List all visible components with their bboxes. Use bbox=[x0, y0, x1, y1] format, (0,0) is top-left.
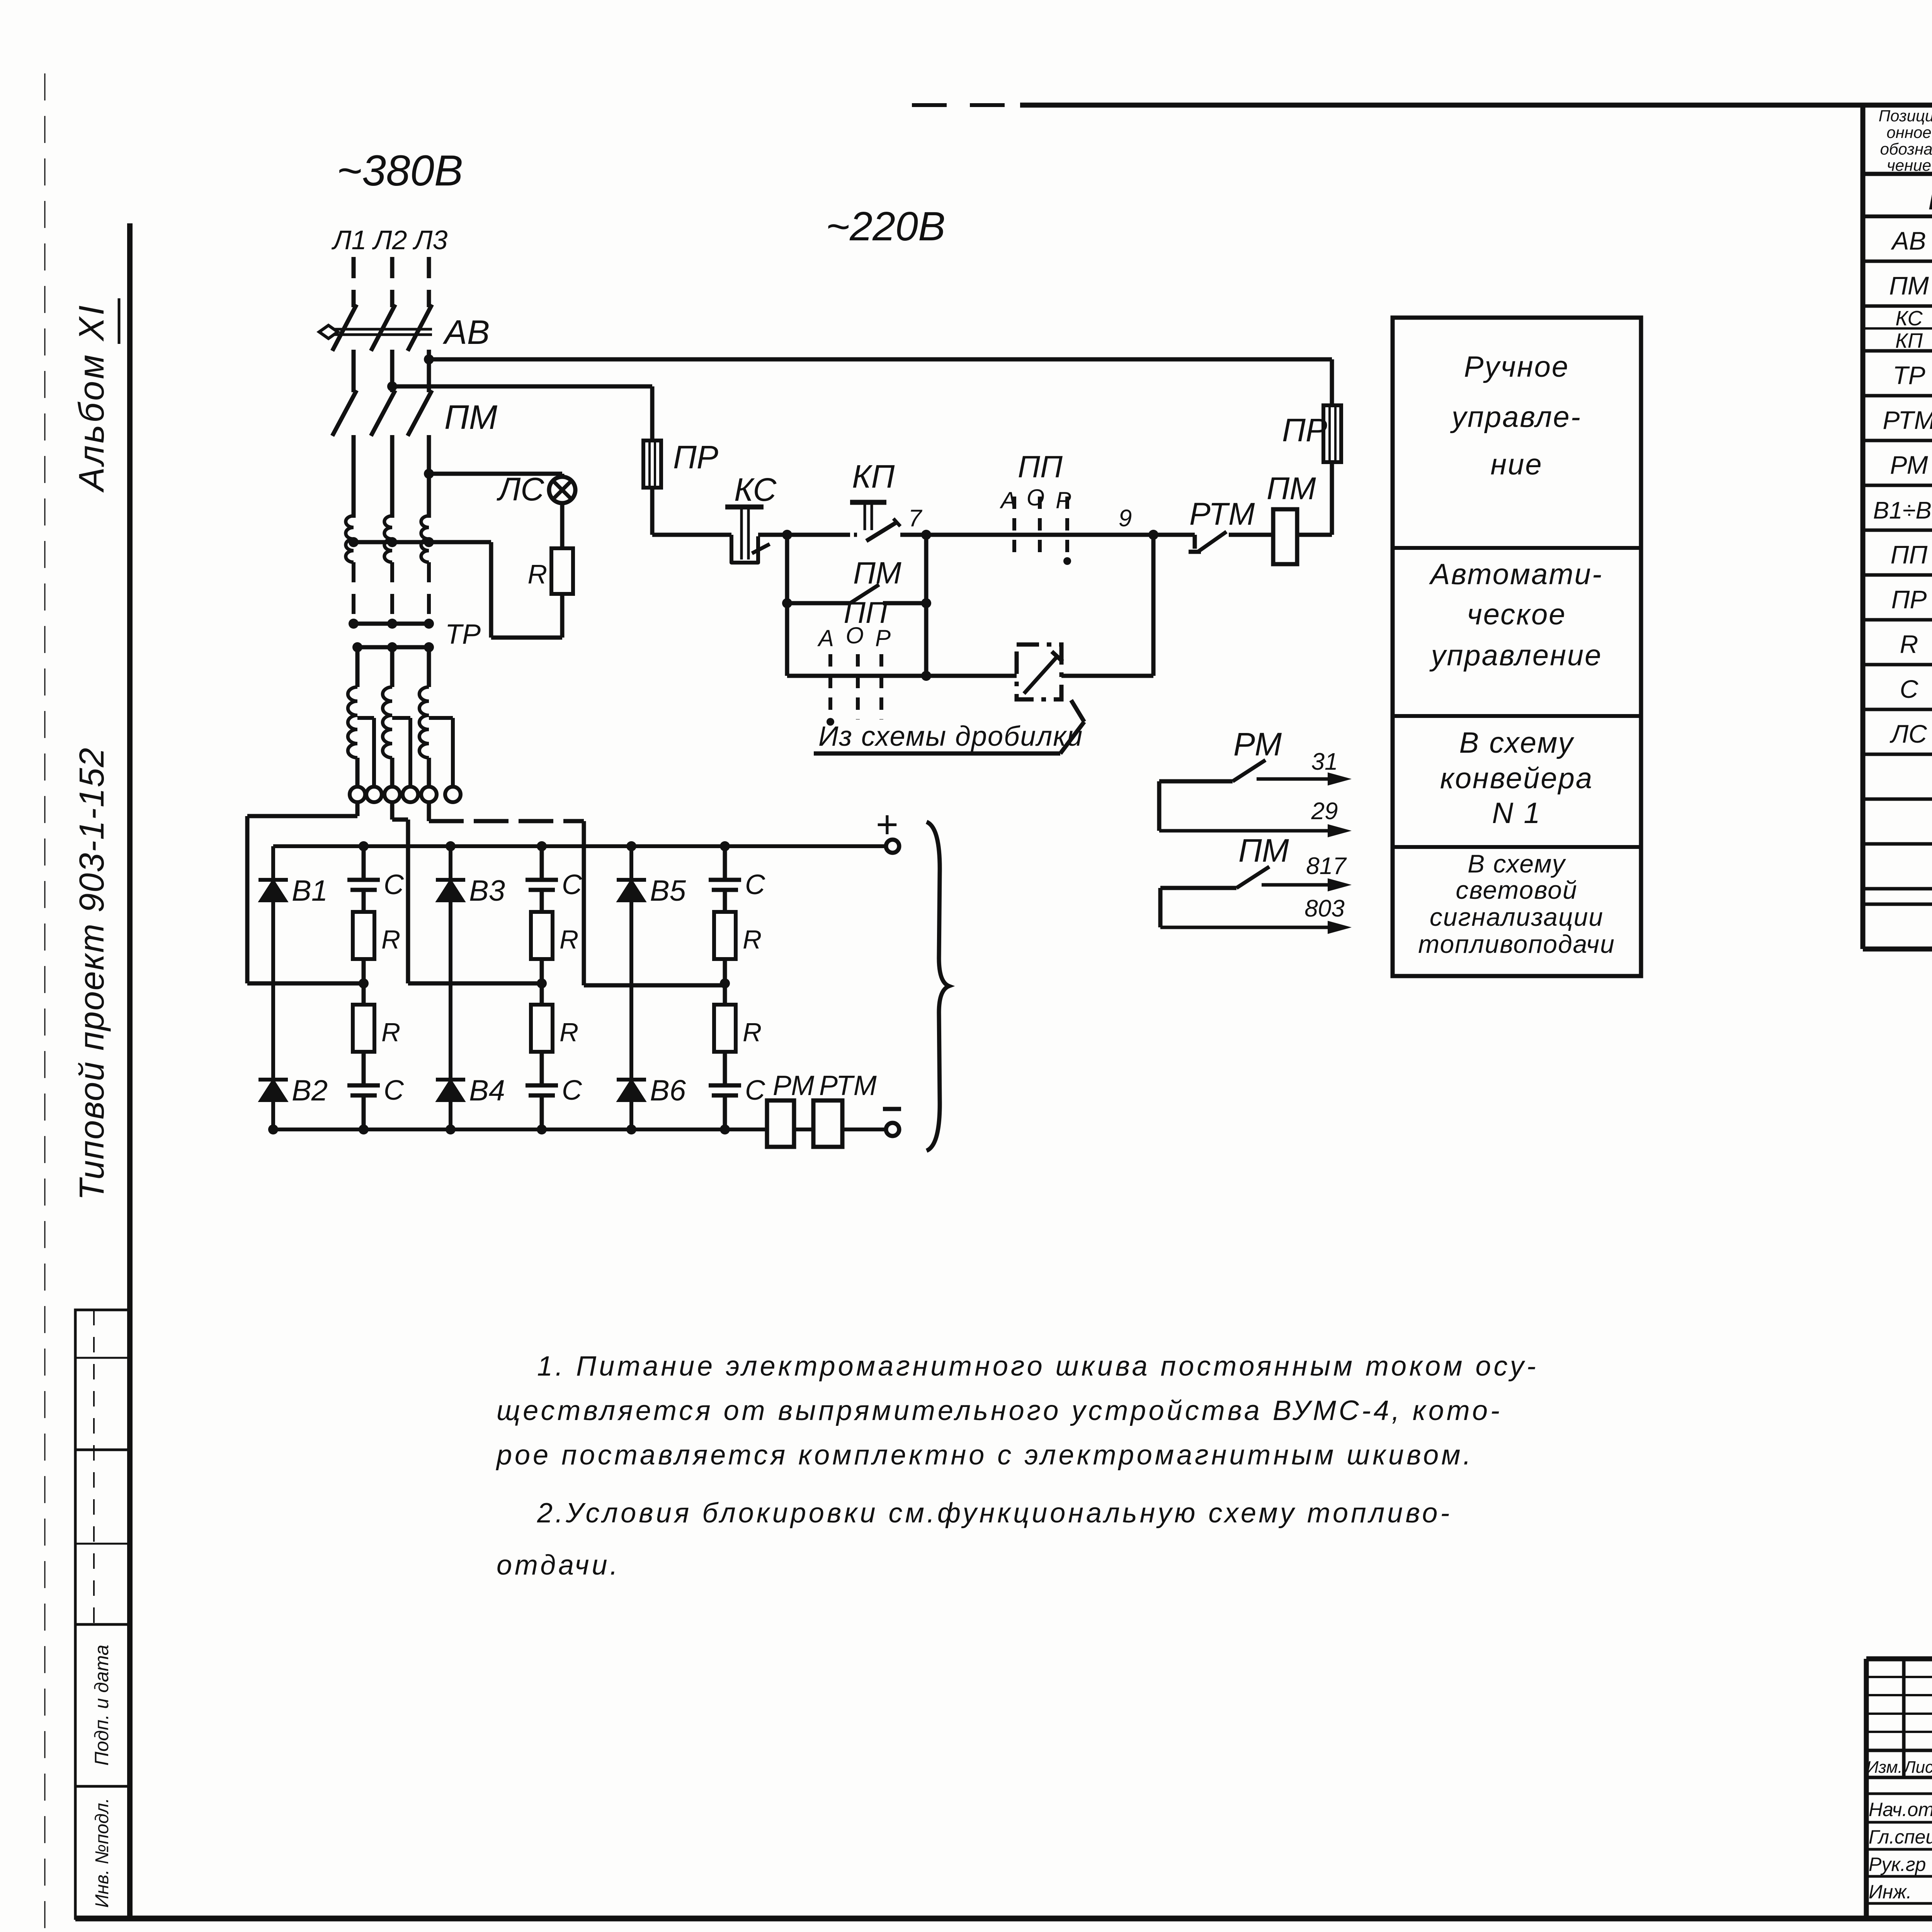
svg-text:~380В: ~380В bbox=[337, 146, 463, 195]
svg-text:Позици-: Позици- bbox=[1879, 107, 1932, 125]
svg-text:В3: В3 bbox=[469, 874, 505, 907]
svg-text:Из схемы дробилки: Из схемы дробилки bbox=[818, 721, 1083, 752]
svg-text:Р: Р bbox=[1056, 487, 1071, 513]
svg-text:отдачи.: отдачи. bbox=[497, 1550, 621, 1581]
svg-text:РТМ: РТМ bbox=[1189, 497, 1255, 532]
svg-text:С: С bbox=[562, 1075, 582, 1106]
svg-text:В схему: В схему bbox=[1459, 726, 1575, 759]
svg-text:ПМ: ПМ bbox=[1889, 271, 1929, 300]
svg-text:В5: В5 bbox=[650, 874, 686, 907]
svg-text:А: А bbox=[1000, 487, 1016, 513]
svg-text:С: С bbox=[384, 1075, 404, 1106]
svg-text:R: R bbox=[560, 925, 578, 954]
svg-text:Л2: Л2 bbox=[372, 225, 407, 255]
svg-text:ПМ: ПМ bbox=[853, 556, 901, 590]
svg-text:ние: ние bbox=[1490, 448, 1543, 481]
svg-text:R: R bbox=[743, 925, 762, 954]
svg-text:Шкаф выпрямительного устройств: Шкаф выпрямительного устройства ВУМС-4 bbox=[1928, 182, 1932, 216]
svg-text:В схему: В схему bbox=[1468, 849, 1566, 878]
svg-text:обозна-: обозна- bbox=[1880, 140, 1932, 158]
svg-text:~220В: ~220В bbox=[826, 204, 945, 249]
svg-text:В6: В6 bbox=[650, 1074, 686, 1107]
svg-text:Альбом XI: Альбом XI bbox=[72, 303, 111, 493]
svg-text:конвейера: конвейера bbox=[1440, 762, 1593, 795]
svg-text:А: А bbox=[817, 625, 834, 651]
svg-text:9: 9 bbox=[1119, 505, 1132, 532]
svg-text:АВ: АВ bbox=[1890, 226, 1926, 255]
svg-text:КП: КП bbox=[1895, 329, 1923, 352]
svg-text:В4: В4 bbox=[469, 1074, 505, 1107]
svg-text:ществляется от выпрямительног: ществляется от выпрямительного устройств… bbox=[497, 1395, 1502, 1426]
svg-text:31: 31 bbox=[1311, 748, 1338, 775]
svg-text:КС: КС bbox=[734, 471, 777, 508]
svg-text:Л1: Л1 bbox=[332, 225, 367, 255]
svg-text:ПР: ПР bbox=[673, 439, 718, 475]
svg-text:РМ: РМ bbox=[1890, 451, 1928, 479]
svg-text:ПМ: ПМ bbox=[1267, 471, 1316, 506]
svg-text:РМ: РМ bbox=[773, 1070, 814, 1101]
svg-text:ПМ: ПМ bbox=[1238, 832, 1289, 869]
svg-text:7: 7 bbox=[908, 505, 923, 532]
svg-text:Рук.гр: Рук.гр bbox=[1869, 1854, 1926, 1875]
svg-text:ПП: ПП bbox=[844, 595, 888, 629]
svg-text:С: С bbox=[745, 869, 765, 900]
svg-text:С: С bbox=[562, 869, 582, 900]
svg-text:ПП: ПП bbox=[1891, 540, 1928, 569]
svg-text:КП: КП bbox=[852, 458, 895, 495]
svg-text:803: 803 bbox=[1304, 895, 1344, 922]
svg-text:ПП: ПП bbox=[1018, 449, 1063, 484]
svg-text:Типовой проект 903-1-152: Типовой проект 903-1-152 bbox=[73, 747, 111, 1200]
svg-text:N 1: N 1 bbox=[1492, 797, 1541, 830]
svg-text:ческое: ческое bbox=[1467, 598, 1566, 631]
svg-text:Изм.: Изм. bbox=[1866, 1758, 1903, 1777]
svg-text:В1: В1 bbox=[292, 874, 328, 907]
svg-text:Инж.: Инж. bbox=[1869, 1881, 1912, 1903]
svg-text:В1÷В6: В1÷В6 bbox=[1873, 497, 1932, 524]
svg-text:ТР: ТР bbox=[1893, 361, 1925, 389]
svg-text:ПМ: ПМ bbox=[444, 398, 498, 436]
svg-text:ТР: ТР bbox=[445, 619, 481, 650]
svg-text:R: R bbox=[381, 1018, 400, 1047]
svg-text:КС: КС bbox=[1895, 307, 1923, 330]
svg-text:Подп. и дата: Подп. и дата bbox=[91, 1645, 112, 1765]
svg-text:817: 817 bbox=[1306, 853, 1347, 879]
svg-text:онное: онное bbox=[1886, 123, 1931, 141]
svg-text:Нач.отд: Нач.отд bbox=[1869, 1799, 1932, 1820]
svg-text:управление: управление bbox=[1429, 639, 1602, 672]
svg-text:рое поставляется комплектно: рое поставляется комплектно с электромаг… bbox=[496, 1440, 1474, 1471]
svg-text:С: С bbox=[745, 1075, 765, 1106]
svg-text:АВ: АВ bbox=[442, 313, 490, 351]
svg-text:ЛС: ЛС bbox=[1889, 719, 1927, 748]
svg-text:топливоподачи: топливоподачи bbox=[1418, 930, 1615, 958]
svg-text:29: 29 bbox=[1311, 798, 1338, 825]
svg-text:управле-: управле- bbox=[1450, 401, 1582, 434]
svg-text:R: R bbox=[1900, 630, 1918, 658]
svg-text:R: R bbox=[743, 1018, 762, 1047]
svg-text:Гл.спец.: Гл.спец. bbox=[1869, 1826, 1932, 1848]
svg-text:С: С bbox=[1900, 675, 1919, 703]
svg-text:R: R bbox=[560, 1018, 578, 1047]
svg-text:О: О bbox=[1027, 485, 1045, 510]
svg-text:Инв. №подл.: Инв. №подл. bbox=[92, 1798, 112, 1908]
svg-text:R: R bbox=[381, 925, 400, 954]
svg-text:С: С bbox=[384, 869, 404, 900]
svg-text:+: + bbox=[876, 803, 898, 846]
svg-text:РМ: РМ bbox=[1233, 726, 1282, 762]
svg-text:ЛС: ЛС bbox=[497, 471, 545, 507]
svg-text:Лист: Лист bbox=[1903, 1758, 1932, 1777]
svg-text:Автомати-: Автомати- bbox=[1429, 558, 1603, 591]
svg-text:сигнализации: сигнализации bbox=[1430, 903, 1604, 931]
svg-text:световой: световой bbox=[1456, 876, 1577, 904]
svg-text:РТМ: РТМ bbox=[819, 1070, 877, 1101]
svg-text:1. Питание электромагнитного: 1. Питание электромагнитного шкива посто… bbox=[537, 1351, 1539, 1382]
svg-text:R: R bbox=[527, 559, 547, 589]
svg-text:Л3: Л3 bbox=[413, 225, 448, 255]
svg-text:ПР: ПР bbox=[1282, 412, 1327, 448]
svg-text:Ручное: Ручное bbox=[1464, 350, 1569, 383]
svg-text:В2: В2 bbox=[292, 1074, 328, 1107]
svg-text:РТМ: РТМ bbox=[1883, 406, 1932, 434]
svg-text:ПР: ПР bbox=[1891, 585, 1927, 614]
svg-text:2.Условия блокировки см.функ: 2.Условия блокировки см.функциональную с… bbox=[537, 1498, 1452, 1529]
svg-text:чение: чение bbox=[1887, 156, 1931, 174]
